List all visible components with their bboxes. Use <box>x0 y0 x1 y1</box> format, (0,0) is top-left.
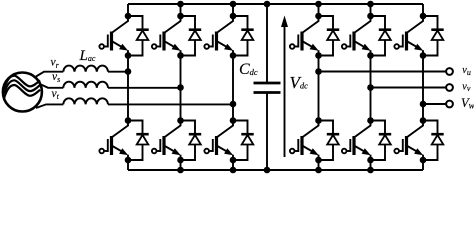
svg-text:vu: vu <box>462 65 471 77</box>
svg-text:vv: vv <box>462 82 471 94</box>
